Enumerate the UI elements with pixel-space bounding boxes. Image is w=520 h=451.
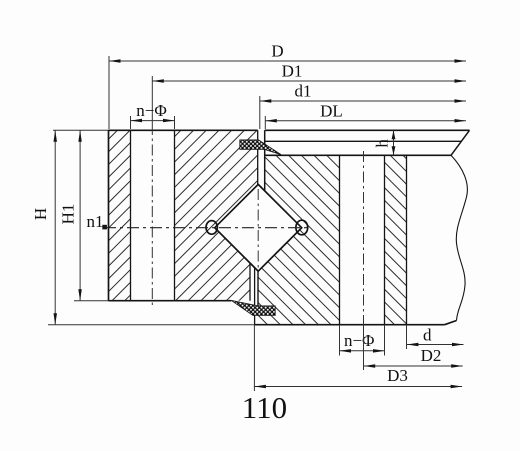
label D1 bbox=[282, 62, 303, 81]
label D3 bbox=[387, 366, 408, 385]
raceway vertical centerline (dash-dot) bbox=[257, 189, 259, 268]
svg-text:D1: D1 bbox=[282, 62, 303, 81]
dimension D1 line with arrows bbox=[152, 79, 466, 83]
bolt hole 2 centerline (dash-dot) bbox=[363, 151, 365, 325]
bottom bolt hole dimension line with arrows bbox=[340, 349, 385, 353]
dimension D3 extension line bbox=[253, 325, 255, 391]
top seal (mesh filled wedge) bbox=[240, 140, 281, 155]
dimension d line with arrows bbox=[407, 343, 464, 346]
svg-text:h: h bbox=[373, 139, 392, 148]
bearing axis dashed line bbox=[104, 227, 310, 229]
bottom bolt hole dimension n-PHI extension lines bbox=[340, 325, 385, 356]
svg-text:H: H bbox=[31, 208, 50, 220]
svg-text:n−Φ: n−Φ bbox=[344, 331, 375, 350]
outer ring left column section (hatched) bbox=[109, 130, 131, 300]
svg-text:D: D bbox=[271, 42, 283, 61]
outer ring main section (hatched, around raceway) bbox=[175, 130, 258, 300]
label H (rotated) bbox=[31, 208, 50, 220]
svg-text:110: 110 bbox=[242, 390, 287, 425]
roller pin circle left bbox=[206, 221, 217, 235]
label D2 bbox=[421, 346, 442, 365]
dimension H1 line with arrows bbox=[78, 130, 82, 300]
dimension DL line with arrows bbox=[265, 119, 466, 123]
svg-text:d1: d1 bbox=[295, 82, 312, 101]
svg-text:DL: DL bbox=[320, 102, 343, 121]
dimension DL extension line bbox=[264, 116, 266, 129]
outer ring left edge bbox=[108, 130, 110, 300]
dimension h line with arrows bbox=[392, 130, 396, 155]
crossed roller (diamond) raceway bbox=[215, 184, 302, 271]
label DL bbox=[320, 102, 343, 121]
mounting plate mid line bbox=[265, 140, 462, 142]
label n-PHI bottom bbox=[344, 331, 375, 350]
dimension D3 line with arrows bbox=[254, 385, 462, 388]
inner ring top surface / plate bottom edge bbox=[265, 154, 451, 156]
label d1 bbox=[295, 82, 312, 101]
svg-text:n−Φ: n−Φ bbox=[136, 101, 167, 120]
bottom gap line c (inner ring lower edge) bbox=[257, 271, 259, 306]
break line (wavy) bbox=[451, 155, 467, 320]
top bolt hole dimension n-PHI extension lines bbox=[131, 116, 175, 129]
outer ring bottom edge (with extension to H1 dim) bbox=[74, 300, 231, 302]
svg-text:D3: D3 bbox=[387, 366, 408, 385]
label D bbox=[271, 42, 283, 61]
outer ring top surface edge (with extension to H dims) bbox=[53, 129, 258, 131]
label h (rotated) bbox=[373, 139, 392, 148]
svg-text:H1: H1 bbox=[59, 204, 78, 225]
dimension D1 extension line bbox=[151, 76, 153, 124]
bottom seal (mesh filled wedge) bbox=[231, 300, 275, 315]
dimension D line with arrows bbox=[109, 59, 466, 63]
value 110 bbox=[242, 390, 287, 425]
bolt hole 1 left edge bbox=[130, 130, 132, 300]
svg-text:n1: n1 bbox=[87, 212, 104, 231]
svg-text:D2: D2 bbox=[421, 346, 442, 365]
dimension d1 line with arrows bbox=[260, 99, 466, 103]
dimension D extension line bbox=[108, 56, 110, 129]
label n-PHI top bbox=[136, 101, 167, 120]
mounting plate top edge bbox=[265, 129, 470, 131]
inner ring outer column section (hatched) bbox=[385, 155, 407, 324]
label n1 with square leader dot bbox=[87, 212, 107, 231]
label H1 (rotated) bbox=[59, 204, 78, 225]
top gap right line (inner ring / plate left edge) bbox=[264, 130, 266, 191]
dimension H line with arrows bbox=[54, 130, 58, 324]
inner ring main section (hatched, around raceway) bbox=[258, 155, 340, 324]
roller pin circle right bbox=[296, 220, 308, 235]
dimension D2 line with arrows bbox=[364, 364, 463, 368]
top gap left line (outer ring raceway edge) bbox=[257, 130, 259, 184]
inner ring outer band right edge bbox=[406, 155, 408, 324]
svg-text:d: d bbox=[423, 326, 432, 345]
mounting plate right chamfer bbox=[451, 130, 470, 155]
dimension D2 extension line bbox=[363, 325, 365, 370]
bolt hole 1 right edge bbox=[174, 130, 176, 300]
label d bbox=[423, 326, 432, 345]
inner ring bottom edge (with extension line to H dim) bbox=[48, 321, 457, 325]
top bolt hole dimension line with arrows bbox=[131, 119, 175, 123]
bolt hole 2 left edge bbox=[339, 155, 341, 324]
dimension d extension line bbox=[406, 325, 408, 349]
bolt hole 2 right edge bbox=[384, 155, 386, 324]
bolt hole 1 centerline (dash-dot) bbox=[151, 124, 153, 307]
dimension d1 extension line bbox=[259, 96, 261, 129]
bottom gap line a bbox=[249, 263, 251, 301]
bottom gap line b bbox=[254, 268, 256, 325]
